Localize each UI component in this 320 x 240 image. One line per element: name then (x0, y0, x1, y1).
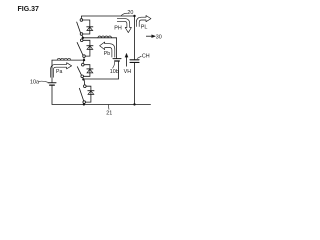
svg-text:21: 21 (106, 111, 112, 117)
svg-text:Pa: Pa (56, 69, 62, 75)
svg-text:Pb: Pb (104, 51, 110, 57)
svg-text:PH: PH (114, 25, 122, 31)
svg-text:10a: 10a (30, 79, 39, 85)
svg-text:VH: VH (124, 69, 132, 75)
svg-text:10b: 10b (110, 69, 119, 75)
svg-text:FIG.37: FIG.37 (18, 6, 40, 13)
svg-text:20: 20 (127, 10, 133, 16)
svg-text:30: 30 (156, 34, 162, 40)
svg-text:PL: PL (141, 25, 148, 31)
svg-text:CH: CH (142, 54, 150, 60)
